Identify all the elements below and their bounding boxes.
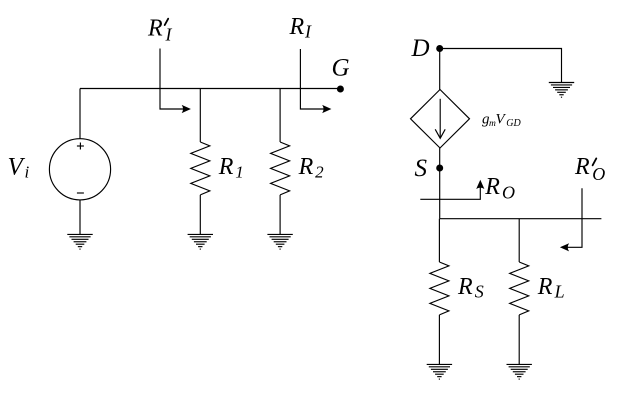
label R_I	[289, 14, 313, 42]
svg-text:L: L	[554, 282, 565, 302]
plus sign inside source	[77, 143, 84, 150]
wire: RS bottom to ground	[438, 315, 440, 365]
label RL	[537, 274, 565, 302]
svg-text:I: I	[165, 24, 173, 44]
svg-text:R: R	[484, 174, 500, 200]
resistor RS	[430, 262, 449, 315]
svg-text:R: R	[218, 154, 234, 180]
wire: R1 bottom to ground	[199, 195, 201, 235]
wire: Vi vertical up to rail	[79, 89, 81, 139]
svg-text:S: S	[475, 282, 484, 302]
probe R'_I: vertical line crossing rail, bend right with arrow	[160, 49, 191, 114]
svg-text:GD: GD	[506, 118, 521, 129]
svg-text:O: O	[592, 164, 605, 184]
wire: D down to dependent source	[439, 49, 441, 90]
svg-text:V: V	[496, 111, 507, 127]
minus sign inside source	[77, 192, 84, 194]
label Vi	[8, 154, 30, 182]
label gmVGD (source value)	[482, 111, 522, 129]
svg-text:D: D	[411, 35, 430, 62]
ground under R2	[267, 234, 292, 249]
dependent current source G1 (diamond)	[411, 90, 470, 149]
svg-text:R: R	[574, 154, 590, 180]
svg-text:R: R	[289, 14, 305, 40]
wire: RL branch from rail	[518, 219, 520, 262]
ground top right	[549, 83, 574, 98]
label R'_O	[574, 154, 605, 184]
svg-text:i: i	[25, 163, 30, 182]
svg-text:V: V	[8, 154, 26, 181]
wire: R2 bottom to ground	[279, 195, 281, 235]
wire: main top rail of left circuit	[80, 88, 340, 90]
node G terminal dot	[337, 86, 344, 93]
wire: RS branch from rail	[438, 219, 440, 262]
label R1	[218, 154, 244, 181]
ground under RS	[427, 364, 452, 379]
label R'_I (input resistance probe label)	[147, 15, 173, 44]
probe R'_O: vertical line crossing rail, bend left with arrow	[560, 188, 582, 251]
svg-text:R: R	[147, 15, 163, 41]
wire: RL bottom to ground	[518, 315, 520, 365]
wire: source bottom through node S down to bottom rail	[439, 148, 441, 219]
svg-text:G: G	[332, 55, 350, 82]
svg-text:R: R	[457, 274, 473, 300]
wire: R2 branch top	[279, 89, 281, 143]
svg-text:2: 2	[315, 163, 324, 182]
svg-text:R: R	[537, 274, 553, 300]
wire: source bottom to ground	[79, 200, 81, 235]
ground under R1	[188, 234, 213, 249]
wire: bottom rail of right circuit	[440, 218, 602, 220]
resistor R1	[191, 142, 210, 195]
svg-text:O: O	[502, 182, 515, 202]
wire: D to top-right ground (horizontal then down)	[440, 49, 562, 83]
ground under Vi	[67, 234, 92, 249]
ground under RL	[507, 364, 532, 379]
node D dot	[436, 45, 443, 52]
node S dot	[436, 165, 443, 172]
voltage source Vi (circle)	[49, 139, 110, 200]
label R2	[298, 154, 325, 181]
arrow inside source (downward current arrow)	[435, 99, 445, 139]
svg-text:1: 1	[235, 163, 244, 182]
probe R_I: vertical line crossing rail, bend right with arrow	[300, 49, 331, 113]
svg-text:I: I	[304, 22, 312, 42]
label R_O	[484, 174, 515, 202]
label RS	[457, 274, 484, 302]
svg-text:R: R	[298, 154, 314, 180]
svg-text:S: S	[415, 155, 428, 182]
resistor RL	[510, 262, 529, 315]
wire: R1 branch top	[199, 89, 201, 143]
probe R_O: horizontal line crossing S wire, bend up with arrow	[420, 180, 484, 200]
resistor R2	[271, 142, 290, 195]
